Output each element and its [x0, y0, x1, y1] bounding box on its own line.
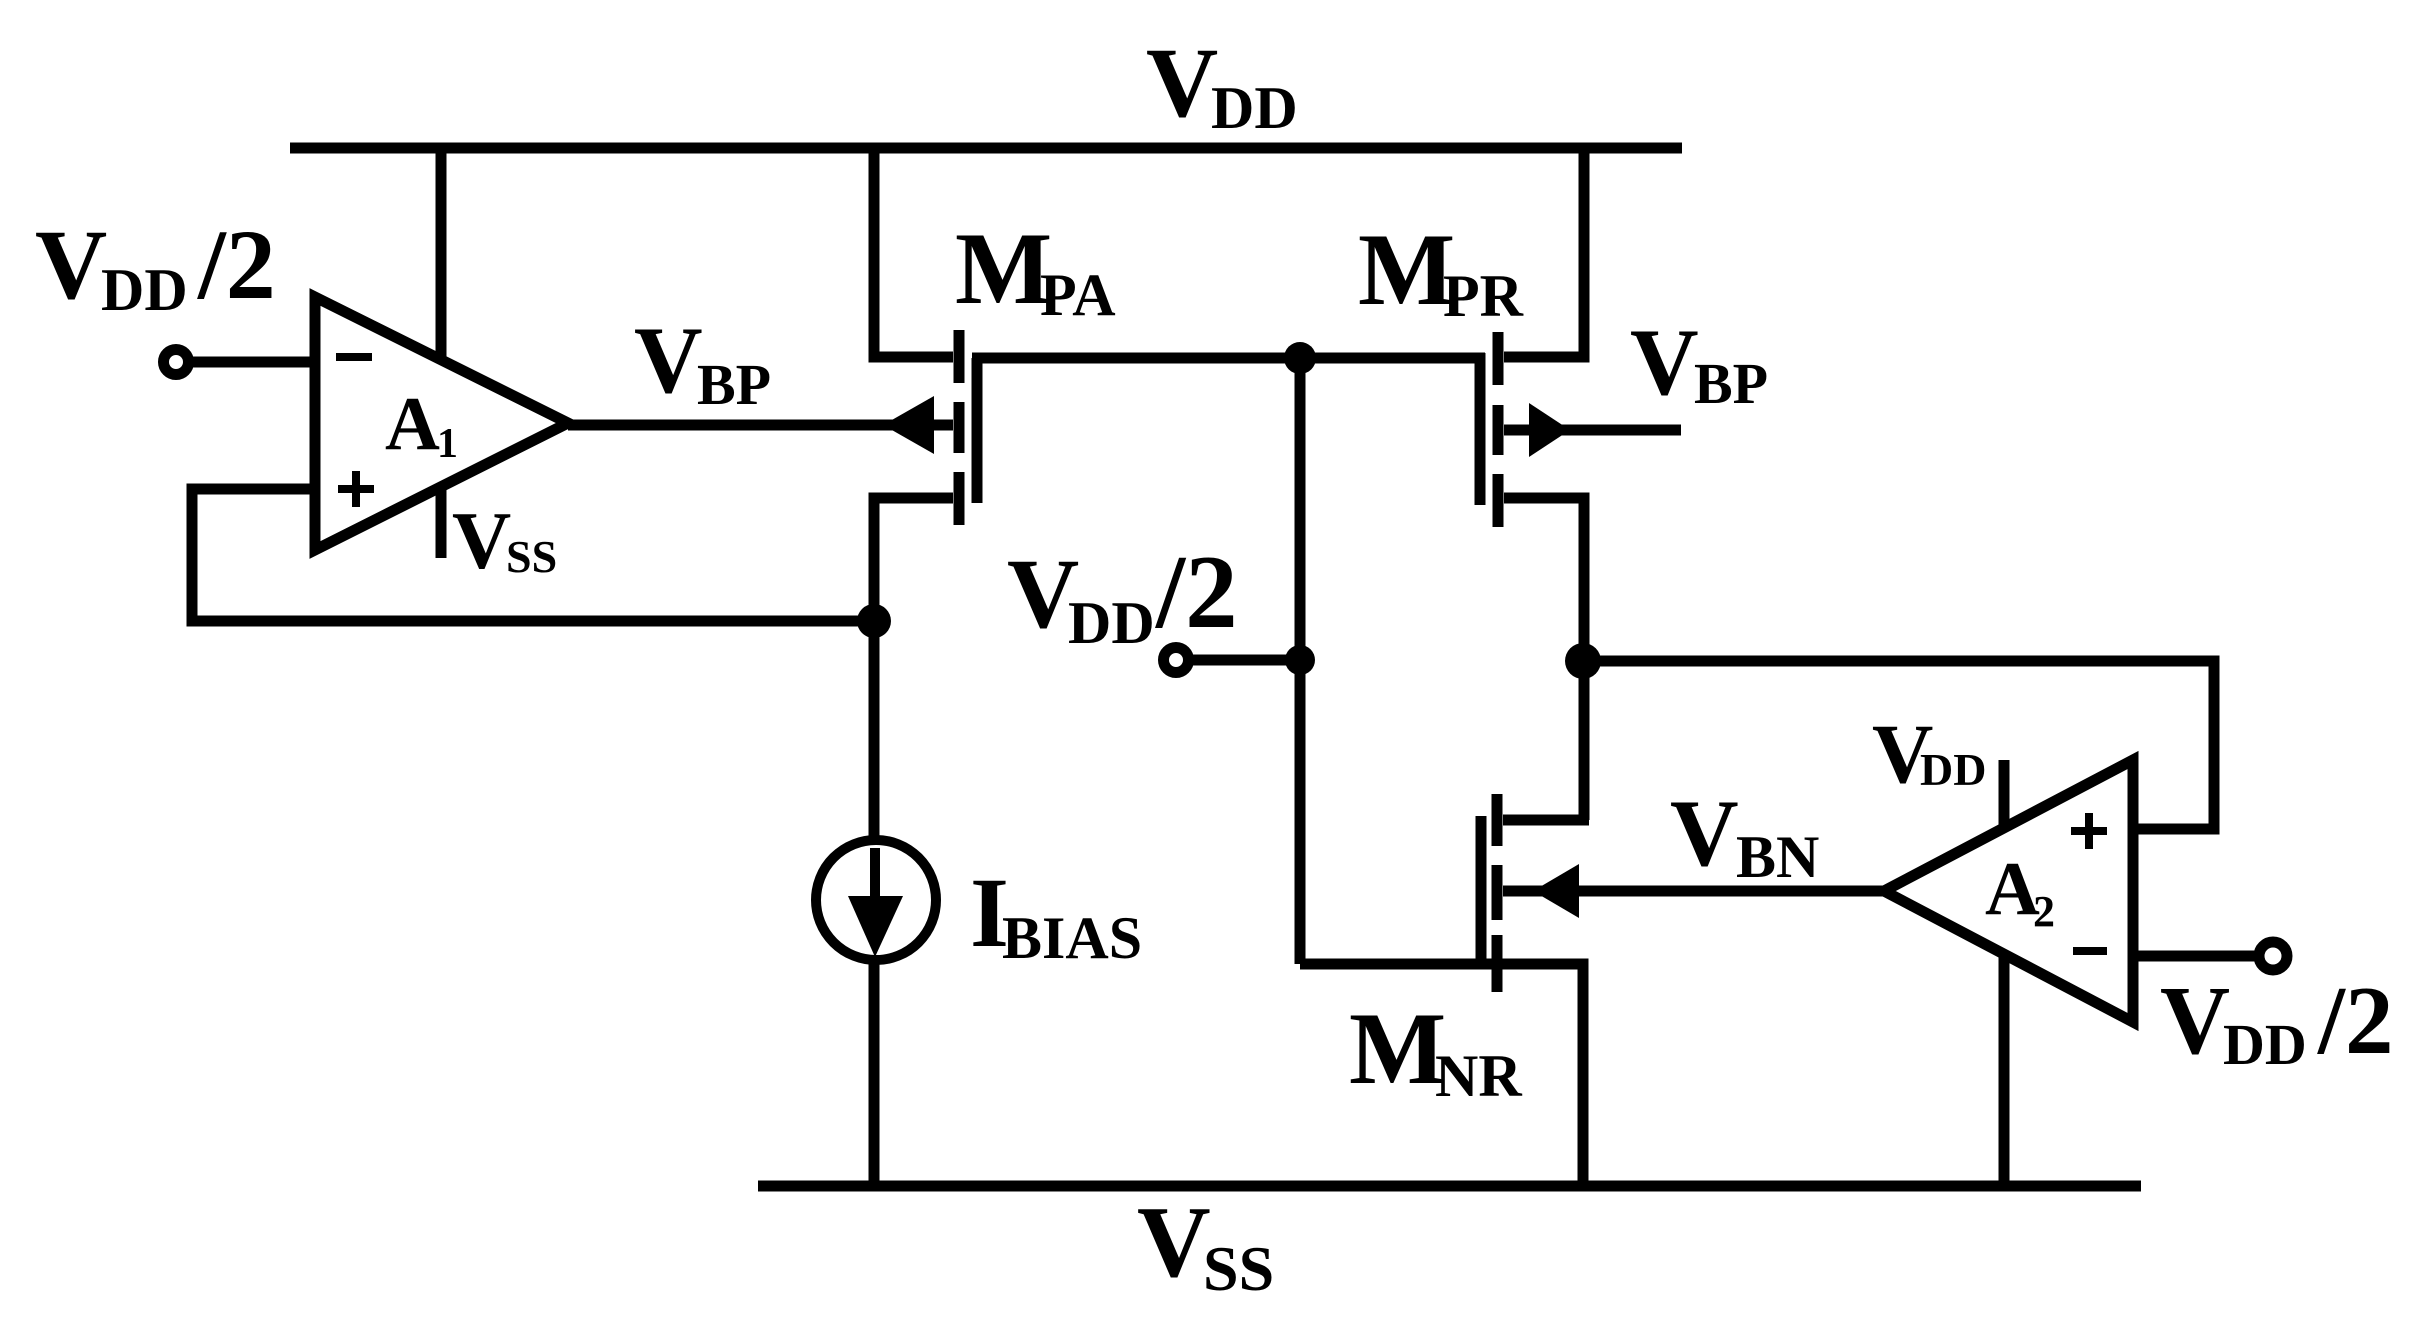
svg-text:A: A	[1985, 847, 2040, 931]
svg-text:SS: SS	[506, 531, 557, 582]
svg-text:M: M	[955, 212, 1052, 326]
svg-text:PA: PA	[1040, 262, 1116, 328]
label A_1 (op-amp)	[385, 382, 458, 467]
svg-text:M: M	[1349, 992, 1446, 1106]
transistor M_NR channel bar (segmented)	[1492, 794, 1503, 992]
svg-text:BP: BP	[1694, 351, 1768, 416]
label I_BIAS	[970, 857, 1142, 971]
svg-text:BN: BN	[1736, 824, 1819, 890]
transistor M_PA gate bar	[972, 358, 983, 503]
node junction dot on node column	[1285, 645, 1315, 675]
wire: I_BIAS to VSS rail	[869, 958, 880, 1186]
svg-text:V: V	[1137, 1186, 1211, 1299]
svg-text:DD: DD	[2223, 1012, 2307, 1077]
label V_SS (bottom rail)	[1137, 1186, 1274, 1304]
transistor M_PA channel bar (segmented)	[954, 330, 965, 525]
svg-text:A: A	[385, 382, 440, 466]
arrow on M_PA gate lead (PMOS)	[883, 396, 934, 454]
wire: feedback from output node to A2 + input	[1583, 661, 2214, 829]
label V_DD/2 (A2 output)	[2160, 967, 2393, 1077]
svg-text:BIAS: BIAS	[1002, 905, 1142, 971]
node output junction dot	[1565, 643, 1601, 679]
svg-text:NR: NR	[1435, 1043, 1522, 1109]
svg-text:V: V	[35, 209, 107, 320]
svg-text:PR: PR	[1443, 263, 1524, 329]
A1 plus sign	[338, 471, 374, 507]
svg-text:SS: SS	[1203, 1233, 1274, 1304]
A2 plus sign	[2071, 813, 2107, 849]
svg-text:2: 2	[2033, 887, 2055, 936]
svg-text:1: 1	[437, 421, 458, 467]
VSS rail	[758, 1181, 2141, 1192]
svg-text:V: V	[1670, 780, 1739, 886]
node VDD/2 input terminal (left)	[164, 350, 189, 375]
VDD rail	[290, 143, 1682, 154]
svg-text:DD: DD	[101, 257, 188, 323]
wire: M_PA drain lead down to I_BIAS	[874, 498, 953, 840]
transistor M_PR channel bar (segmented)	[1493, 332, 1504, 527]
node VDD/2 terminal (A2 input)	[2259, 942, 2287, 970]
label V_DD/2 (left input)	[35, 209, 276, 323]
svg-text:V: V	[1630, 309, 1699, 415]
label V_DD (A2 supply)	[1872, 707, 1986, 801]
label V_DD/2 (middle input)	[1007, 533, 1238, 656]
wire: node column down from gate bus	[1295, 358, 1306, 964]
A2 lower supply pin to VSS rail	[1999, 954, 2010, 1186]
wire: M_PR gate lead to V_BP terminal	[1504, 425, 1681, 436]
svg-text:DD: DD	[1920, 744, 1986, 795]
svg-text:/2: /2	[197, 209, 276, 320]
I_BIAS arrow	[870, 848, 880, 905]
label V_SS (A1 pin)	[452, 495, 557, 586]
op-amp A2	[1884, 760, 2133, 1022]
label V_BP (right)	[1630, 309, 1768, 416]
svg-text:/2: /2	[2317, 967, 2393, 1074]
wire: inverting input of A1	[189, 357, 315, 368]
transistor M_NR gate bar	[1476, 816, 1487, 969]
label V_BN	[1670, 780, 1819, 890]
node VDD/2 input terminal (middle)	[1164, 648, 1189, 673]
wire: A1 output (V_BP) to M_PA	[568, 420, 953, 431]
wire: A1 + input feedback loop	[192, 489, 874, 621]
wire: A2 minus input to VDD/2 terminal	[2133, 951, 2259, 962]
label A_2 (op-amp)	[1985, 847, 2055, 936]
current source I_BIAS	[816, 840, 936, 960]
label V_DD (top rail)	[1146, 27, 1298, 141]
wire: gate bus between M_PA and M_PR	[972, 353, 1485, 364]
wire: M_NR top lead to output node	[1503, 815, 1589, 826]
op-amp A1	[315, 297, 568, 550]
svg-text:V: V	[1146, 27, 1218, 138]
wire: A1 positive supply from VDD rail	[436, 148, 447, 362]
svg-text:DD: DD	[1068, 590, 1155, 656]
A2 VDD supply pin	[1999, 760, 2010, 828]
label M_NR	[1349, 992, 1522, 1109]
svg-text:/2: /2	[1154, 533, 1238, 650]
label M_PR	[1358, 213, 1524, 329]
svg-text:V: V	[634, 307, 703, 413]
wire: VDD/2 stub to node column	[1190, 655, 1300, 666]
node junction dot on gate bus	[1284, 342, 1316, 374]
label M_PA	[955, 212, 1116, 328]
wire: M_NR bottom lead from node column to VSS	[1300, 964, 1583, 1186]
A1 minus sign	[336, 353, 372, 361]
wire: M_PR source from VDD rail	[1504, 148, 1584, 357]
svg-text:BP: BP	[697, 352, 771, 417]
svg-text:DD: DD	[1211, 75, 1298, 141]
wire: M_NR gate lead from A2 output (V_BN)	[1503, 886, 1884, 897]
node junction dot at M_PA drain / feedback	[857, 604, 891, 638]
arrow on M_PR gate lead (PMOS)	[1529, 403, 1570, 457]
arrow on M_NR gate lead (NMOS)	[1533, 864, 1579, 918]
wire: M_PR drain lead down to output node	[1504, 498, 1584, 820]
A2 minus sign	[2073, 947, 2107, 955]
A1 VSS pin	[436, 487, 447, 558]
label V_BP (A1 output)	[634, 307, 771, 417]
svg-text:M: M	[1358, 213, 1455, 327]
wire: M_PA source from VDD rail	[874, 148, 953, 357]
svg-text:V: V	[452, 495, 511, 586]
svg-text:V: V	[2160, 967, 2230, 1074]
transistor M_PR gate bar	[1475, 353, 1486, 505]
